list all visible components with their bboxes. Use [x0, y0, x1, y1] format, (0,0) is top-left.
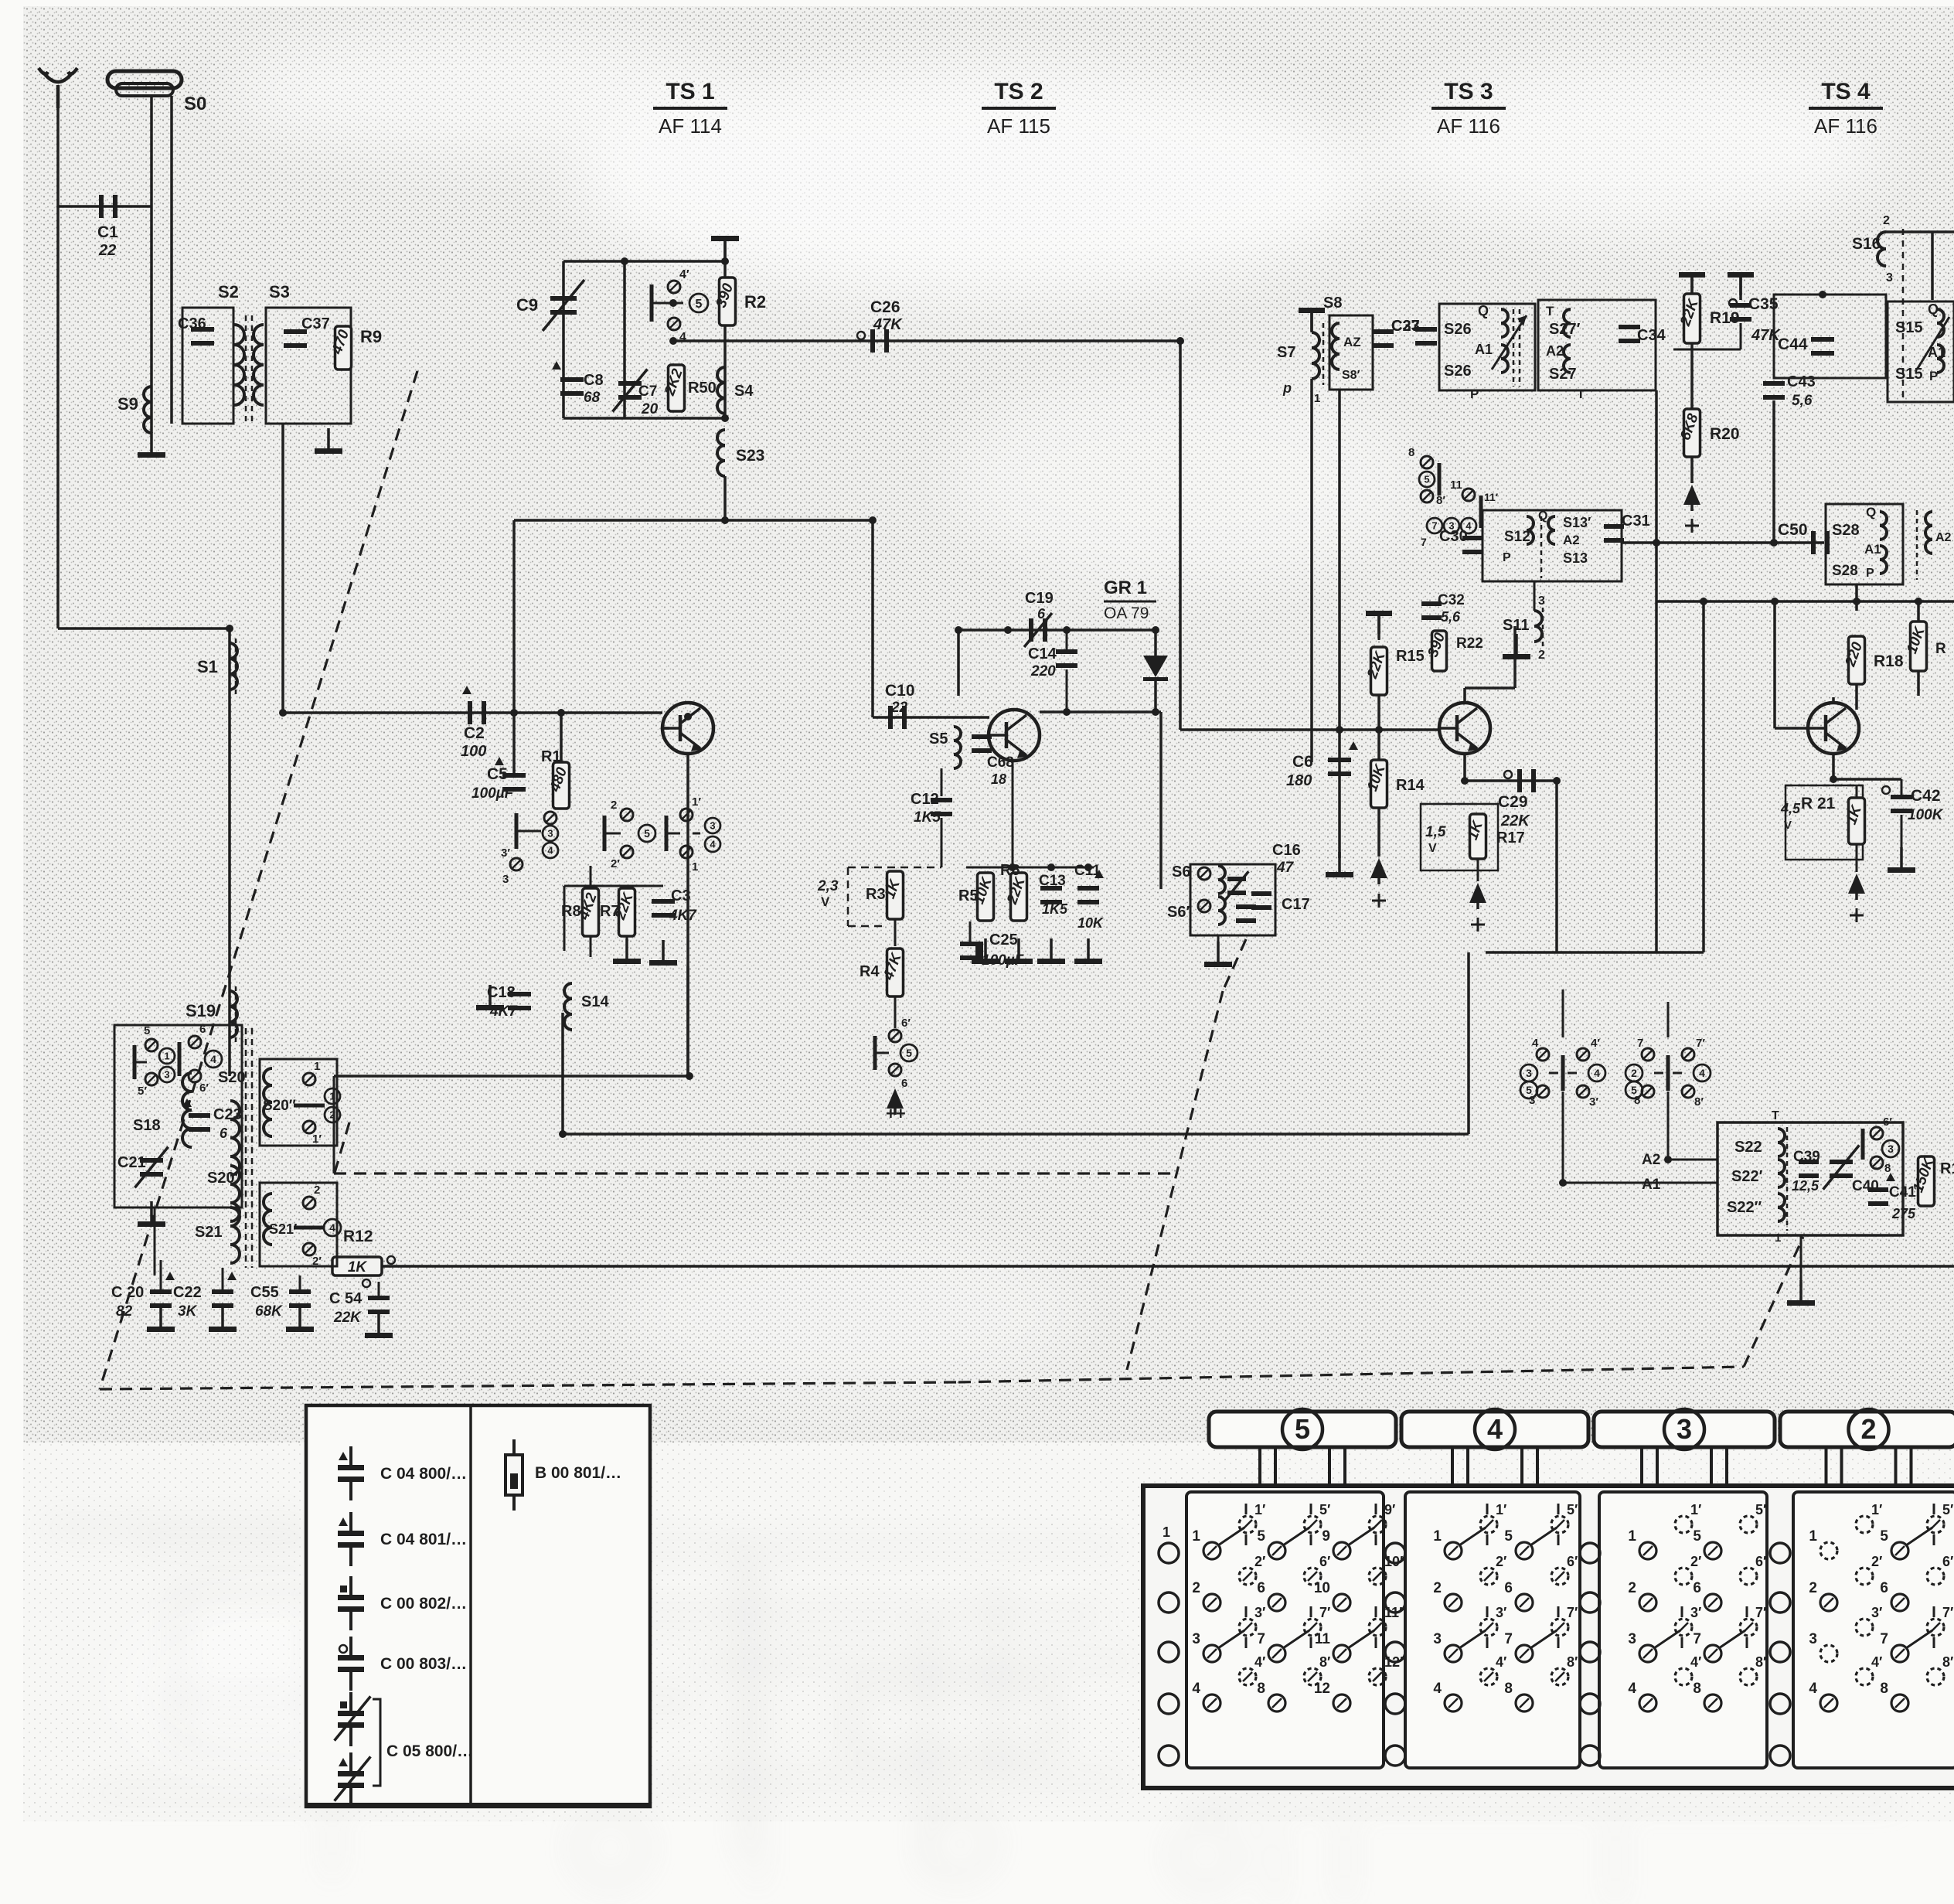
svg-text:R12: R12 [343, 1228, 373, 1245]
svg-text:1: 1 [314, 1060, 320, 1073]
svg-text:6: 6 [1257, 1580, 1265, 1596]
svg-text:R18: R18 [1874, 652, 1904, 670]
svg-text:4: 4 [1487, 1413, 1503, 1445]
svg-text:A2: A2 [1642, 1152, 1660, 1168]
svg-text:3′: 3′ [1690, 1605, 1701, 1620]
svg-text:1: 1 [1809, 1528, 1817, 1545]
svg-text:8′: 8′ [1694, 1095, 1704, 1109]
svg-text:C 00 802/…: C 00 802/… [380, 1595, 467, 1613]
svg-text:T: T [1546, 304, 1554, 318]
svg-text:5′: 5′ [138, 1085, 147, 1098]
svg-text:2: 2 [1628, 1580, 1636, 1596]
svg-text:6: 6 [199, 1023, 206, 1036]
svg-text:7′: 7′ [1755, 1605, 1766, 1620]
svg-text:3: 3 [1433, 1631, 1442, 1647]
svg-text:1′: 1′ [1690, 1502, 1701, 1517]
svg-text:4′: 4′ [679, 268, 689, 281]
svg-text:R 21: R 21 [1801, 795, 1836, 812]
svg-text:TS 2: TS 2 [994, 79, 1043, 104]
svg-text:C31: C31 [1622, 513, 1650, 530]
svg-text:6: 6 [1504, 1580, 1513, 1596]
svg-text:R50: R50 [688, 380, 717, 397]
svg-text:A1: A1 [1864, 542, 1881, 557]
svg-text:5: 5 [1424, 474, 1429, 485]
svg-text:5′: 5′ [1942, 1502, 1953, 1517]
svg-text:R14: R14 [1396, 777, 1425, 794]
svg-text:4: 4 [547, 845, 553, 857]
svg-text:180: 180 [1286, 772, 1312, 789]
svg-text:9: 9 [1322, 1528, 1330, 1545]
svg-text:22K: 22K [333, 1310, 362, 1326]
svg-text:4′: 4′ [1254, 1654, 1265, 1670]
svg-text:C32: C32 [1438, 592, 1465, 608]
svg-text:R3: R3 [866, 886, 886, 903]
svg-text:5: 5 [1257, 1528, 1265, 1545]
svg-text:6: 6 [1880, 1580, 1888, 1596]
svg-text:7′: 7′ [1319, 1605, 1330, 1620]
svg-text:C10: C10 [885, 682, 915, 700]
svg-text:A2: A2 [1935, 531, 1952, 544]
svg-text:4: 4 [1433, 1681, 1442, 1697]
svg-text:P: P [1929, 369, 1938, 383]
svg-text:C 20: C 20 [111, 1284, 144, 1301]
svg-text:C 04 800/…: C 04 800/… [380, 1465, 467, 1483]
svg-text:S21: S21 [195, 1224, 223, 1241]
svg-text:1′: 1′ [1496, 1502, 1506, 1517]
svg-text:5: 5 [906, 1047, 912, 1059]
svg-text:Q: Q [1538, 509, 1547, 523]
svg-text:TS 4: TS 4 [1821, 79, 1871, 104]
svg-text:S6′: S6′ [1167, 904, 1190, 921]
svg-text:S27: S27 [1549, 366, 1577, 383]
svg-text:5: 5 [1526, 1084, 1532, 1096]
svg-text:1: 1 [1192, 1528, 1200, 1545]
svg-text:2′: 2′ [312, 1255, 322, 1268]
svg-text:S12: S12 [1504, 529, 1530, 545]
svg-text:5′: 5′ [1567, 1502, 1578, 1517]
svg-text:47K: 47K [873, 316, 903, 333]
svg-text:S9: S9 [117, 394, 138, 414]
svg-text:S6: S6 [1172, 863, 1190, 880]
svg-text:S14: S14 [581, 993, 609, 1010]
svg-text:1: 1 [1314, 392, 1320, 405]
svg-text:1,5: 1,5 [1425, 824, 1446, 840]
svg-text:S15: S15 [1895, 319, 1923, 336]
svg-text:C34: C34 [1637, 327, 1666, 344]
svg-text:A1: A1 [1475, 342, 1493, 357]
svg-text:1′: 1′ [1871, 1502, 1882, 1517]
svg-text:R11: R11 [1940, 1160, 1954, 1177]
svg-text:S22′: S22′ [1731, 1168, 1763, 1185]
svg-text:AZ: AZ [1343, 335, 1361, 349]
svg-text:2: 2 [314, 1184, 320, 1197]
svg-text:100µF: 100µF [471, 785, 515, 802]
svg-text:6′: 6′ [1319, 1554, 1330, 1569]
svg-text:C44: C44 [1778, 335, 1808, 353]
svg-text:68: 68 [584, 390, 601, 406]
svg-text:1: 1 [164, 1051, 169, 1062]
svg-text:S2: S2 [218, 282, 239, 301]
svg-text:4: 4 [329, 1221, 335, 1234]
svg-text:S8: S8 [1323, 295, 1342, 312]
svg-text:11: 11 [1315, 1631, 1331, 1647]
svg-text:S3: S3 [269, 282, 290, 301]
svg-text:5: 5 [696, 298, 703, 311]
svg-text:7′: 7′ [1942, 1605, 1953, 1620]
svg-text:S11: S11 [1503, 617, 1529, 634]
svg-text:5′: 5′ [1755, 1502, 1766, 1517]
svg-text:1K5: 1K5 [914, 809, 941, 826]
svg-text:4: 4 [710, 839, 716, 850]
svg-text:11′: 11′ [1484, 491, 1499, 503]
svg-text:B 00 801/…: B 00 801/… [535, 1464, 621, 1482]
svg-text:2: 2 [1631, 1067, 1637, 1079]
svg-text:S22″: S22″ [1727, 1199, 1762, 1216]
svg-text:S7: S7 [1277, 344, 1295, 361]
svg-text:R7: R7 [600, 903, 620, 920]
svg-text:S26: S26 [1444, 321, 1472, 338]
svg-text:8′: 8′ [1436, 494, 1445, 507]
svg-text:4: 4 [210, 1053, 216, 1065]
svg-text:S4: S4 [734, 383, 754, 400]
svg-text:3: 3 [502, 873, 509, 886]
svg-text:20: 20 [641, 401, 659, 417]
svg-text:C36: C36 [178, 315, 206, 332]
svg-text:C 54: C 54 [329, 1290, 363, 1307]
svg-text:C26: C26 [870, 298, 900, 316]
svg-text:C16: C16 [1272, 842, 1301, 859]
svg-text:7: 7 [1257, 1631, 1265, 1647]
svg-text:8′: 8′ [1319, 1654, 1330, 1670]
svg-text:6: 6 [220, 1126, 228, 1141]
svg-text:3: 3 [1628, 1631, 1636, 1647]
svg-text:2: 2 [1860, 1413, 1876, 1445]
svg-text:3: 3 [1888, 1143, 1894, 1155]
svg-text:C68: C68 [987, 754, 1014, 771]
svg-text:R9: R9 [360, 327, 382, 346]
svg-text:22K: 22K [1500, 812, 1530, 829]
svg-text:C29: C29 [1498, 793, 1528, 811]
svg-text:C14: C14 [1028, 645, 1057, 662]
svg-text:S18: S18 [133, 1117, 161, 1134]
svg-text:C39: C39 [1793, 1149, 1820, 1165]
svg-text:S21′: S21′ [269, 1221, 297, 1237]
svg-text:8: 8 [1884, 1162, 1891, 1175]
svg-text:2′: 2′ [1496, 1554, 1506, 1569]
svg-text:8: 8 [1504, 1681, 1513, 1697]
svg-text:AF 114: AF 114 [659, 114, 722, 138]
svg-text:2: 2 [1809, 1580, 1817, 1596]
svg-text:C6: C6 [1292, 753, 1313, 771]
svg-text:6′: 6′ [1883, 1115, 1892, 1129]
svg-text:C 04 801/…: C 04 801/… [380, 1531, 467, 1548]
svg-text:1K: 1K [348, 1259, 368, 1276]
svg-text:3: 3 [1538, 594, 1545, 608]
svg-text:5: 5 [1295, 1413, 1310, 1445]
svg-text:6′: 6′ [1567, 1554, 1578, 1569]
svg-text:R5: R5 [958, 887, 979, 904]
svg-text:3: 3 [1526, 1067, 1532, 1079]
svg-text:3: 3 [1809, 1631, 1817, 1647]
svg-text:C9: C9 [516, 295, 538, 315]
svg-text:18: 18 [991, 771, 1006, 787]
svg-text:9′: 9′ [1384, 1502, 1395, 1517]
svg-text:1: 1 [1775, 1231, 1781, 1245]
svg-text:10: 10 [1314, 1580, 1330, 1596]
svg-text:6′: 6′ [1755, 1554, 1766, 1569]
svg-text:7′: 7′ [1567, 1605, 1578, 1620]
svg-text:1: 1 [1628, 1528, 1636, 1545]
svg-text:A1: A1 [1642, 1177, 1661, 1193]
svg-text:4′: 4′ [1871, 1654, 1882, 1670]
svg-text:S8′: S8′ [1342, 369, 1360, 382]
svg-text:7: 7 [1693, 1631, 1701, 1647]
svg-text:4: 4 [1628, 1681, 1636, 1697]
svg-text:3′: 3′ [1871, 1605, 1882, 1620]
svg-text:11: 11 [1450, 479, 1462, 492]
svg-text:22: 22 [98, 242, 116, 259]
svg-text:3′: 3′ [1589, 1095, 1598, 1109]
svg-text:2′: 2′ [1871, 1554, 1882, 1569]
svg-text:Q: Q [1866, 505, 1876, 519]
svg-text:S1: S1 [197, 657, 218, 676]
svg-text:S20: S20 [218, 1069, 246, 1086]
svg-text:82: 82 [116, 1303, 133, 1320]
svg-text:4′: 4′ [1496, 1654, 1506, 1670]
svg-text:5: 5 [1631, 1084, 1637, 1096]
svg-text:R4: R4 [860, 963, 880, 980]
svg-text:7′: 7′ [1696, 1037, 1705, 1050]
svg-text:Q: Q [1928, 301, 1939, 317]
svg-text:C12: C12 [911, 791, 939, 808]
svg-text:C19: C19 [1025, 590, 1054, 607]
svg-text:4K7: 4K7 [669, 908, 697, 924]
svg-text:6′: 6′ [1942, 1554, 1953, 1569]
svg-text:3: 3 [1192, 1631, 1200, 1647]
svg-text:10′: 10′ [1384, 1554, 1403, 1569]
svg-text:47: 47 [1276, 860, 1295, 876]
svg-text:Q: Q [1478, 303, 1489, 318]
svg-text:A2: A2 [1546, 343, 1564, 359]
svg-text:5: 5 [1693, 1528, 1701, 1545]
svg-text:V: V [821, 894, 830, 909]
svg-text:4: 4 [1532, 1037, 1539, 1050]
svg-text:8: 8 [1880, 1681, 1888, 1697]
svg-text:C42: C42 [1911, 787, 1941, 805]
svg-text:2′: 2′ [611, 857, 620, 870]
svg-text:12′: 12′ [1384, 1654, 1403, 1670]
svg-text:C55: C55 [250, 1284, 279, 1301]
svg-text:C 00 803/…: C 00 803/… [380, 1655, 467, 1673]
svg-text:S16: S16 [1852, 235, 1881, 253]
svg-text:6: 6 [1037, 606, 1046, 622]
svg-text:12,5: 12,5 [1792, 1178, 1820, 1194]
svg-text:3: 3 [547, 828, 553, 840]
svg-text:2: 2 [611, 799, 617, 812]
svg-text:3: 3 [710, 820, 715, 832]
svg-text:275: 275 [1891, 1206, 1916, 1221]
svg-text:C30: C30 [1439, 528, 1468, 545]
svg-text:S28: S28 [1832, 563, 1858, 579]
svg-text:5: 5 [644, 827, 650, 840]
svg-text:7: 7 [1637, 1037, 1643, 1050]
svg-text:4: 4 [1699, 1067, 1705, 1079]
svg-text:3: 3 [164, 1069, 169, 1081]
svg-text:p: p [1282, 380, 1292, 396]
svg-text:100: 100 [461, 743, 486, 760]
svg-text:S19: S19 [186, 1001, 216, 1020]
svg-text:3′: 3′ [501, 846, 510, 860]
svg-text:GR 1: GR 1 [1104, 577, 1147, 598]
svg-text:22: 22 [890, 700, 908, 716]
svg-text:R17: R17 [1496, 829, 1525, 846]
svg-text:4′: 4′ [1690, 1654, 1701, 1670]
svg-text:3K: 3K [178, 1303, 198, 1320]
svg-text:P: P [1866, 567, 1874, 580]
svg-text:C33: C33 [1391, 318, 1420, 335]
svg-text:100K: 100K [1908, 807, 1944, 823]
svg-text:C22: C22 [173, 1284, 202, 1301]
svg-text:3: 3 [1677, 1413, 1692, 1445]
svg-text:C43: C43 [1787, 373, 1816, 390]
svg-text:4,5: 4,5 [1780, 801, 1801, 816]
svg-text:T: T [1772, 1109, 1779, 1122]
svg-text:2: 2 [1192, 1580, 1200, 1596]
svg-text:4′: 4′ [1591, 1037, 1600, 1050]
svg-text:C25: C25 [989, 932, 1018, 949]
svg-text:C5: C5 [487, 765, 508, 783]
svg-text:S28: S28 [1832, 522, 1860, 539]
svg-text:C37: C37 [301, 315, 330, 332]
svg-text:47K: 47K [1751, 327, 1781, 344]
svg-text:5: 5 [1504, 1528, 1513, 1545]
svg-text:2,3: 2,3 [817, 878, 839, 894]
svg-text:1: 1 [692, 860, 698, 874]
svg-text:S23: S23 [736, 447, 764, 465]
svg-text:2: 2 [1433, 1580, 1442, 1596]
svg-text:3′: 3′ [1496, 1605, 1506, 1620]
svg-text:R22: R22 [1456, 635, 1483, 652]
svg-text:V: V [1428, 842, 1437, 855]
svg-text:6: 6 [1693, 1580, 1701, 1596]
svg-text:C3: C3 [671, 887, 691, 904]
svg-text:C50: C50 [1778, 521, 1808, 539]
svg-text:2′: 2′ [1690, 1554, 1701, 1569]
svg-text:8: 8 [1408, 446, 1414, 459]
svg-text:S0: S0 [184, 94, 206, 114]
svg-text:11′: 11′ [1384, 1605, 1402, 1620]
svg-text:R: R [1935, 641, 1946, 657]
svg-text:T: T [1577, 387, 1585, 401]
svg-text:AF 116: AF 116 [1437, 114, 1500, 138]
svg-text:C7: C7 [638, 383, 657, 400]
svg-text:AF 116: AF 116 [1814, 114, 1877, 138]
svg-text:S22: S22 [1734, 1139, 1762, 1156]
svg-text:S26: S26 [1444, 363, 1472, 380]
svg-text:5,6: 5,6 [1792, 393, 1813, 409]
svg-text:4: 4 [1192, 1681, 1200, 1697]
svg-text:TS 1: TS 1 [666, 79, 714, 104]
svg-text:10K: 10K [1077, 915, 1105, 931]
svg-text:V: V [1784, 819, 1792, 832]
svg-text:C13: C13 [1039, 873, 1066, 889]
svg-text:S13: S13 [1563, 550, 1588, 566]
svg-text:1′: 1′ [692, 795, 701, 809]
svg-text:1: 1 [1163, 1524, 1170, 1540]
svg-text:5: 5 [1880, 1528, 1888, 1545]
svg-text:12: 12 [1314, 1681, 1330, 1697]
svg-text:R1: R1 [541, 748, 561, 765]
svg-text:C2: C2 [464, 724, 485, 742]
svg-text:C1: C1 [97, 223, 118, 241]
svg-text:C17: C17 [1282, 896, 1310, 913]
svg-text:8′: 8′ [1567, 1654, 1578, 1670]
svg-text:OA 79: OA 79 [1104, 605, 1149, 622]
svg-text:1′: 1′ [1254, 1502, 1265, 1517]
svg-text:C 05 800/…: C 05 800/… [386, 1742, 473, 1760]
svg-text:5′: 5′ [1319, 1502, 1330, 1517]
svg-text:AF 115: AF 115 [987, 114, 1050, 138]
svg-text:2: 2 [1538, 649, 1545, 662]
svg-text:7: 7 [1431, 520, 1437, 532]
svg-text:5: 5 [144, 1024, 150, 1037]
svg-text:8: 8 [1257, 1681, 1265, 1697]
svg-text:8′: 8′ [1942, 1654, 1953, 1670]
svg-text:S5: S5 [929, 731, 948, 748]
svg-text:3: 3 [1886, 271, 1893, 284]
svg-text:6: 6 [901, 1077, 907, 1090]
svg-text:3′: 3′ [1254, 1605, 1265, 1620]
svg-text:1′: 1′ [312, 1133, 322, 1146]
svg-text:6′: 6′ [901, 1017, 911, 1030]
svg-text:7: 7 [1421, 536, 1427, 548]
svg-text:1: 1 [1433, 1528, 1442, 1545]
svg-text:8: 8 [1693, 1681, 1701, 1697]
svg-text:6′: 6′ [199, 1081, 209, 1095]
svg-text:8′: 8′ [1755, 1654, 1766, 1670]
svg-text:R15: R15 [1396, 648, 1425, 665]
svg-text:2: 2 [1883, 214, 1890, 227]
svg-text:++: ++ [886, 1104, 906, 1123]
svg-text:5,6: 5,6 [1441, 609, 1461, 625]
svg-text:2′: 2′ [1254, 1554, 1265, 1569]
svg-text:7: 7 [1880, 1631, 1888, 1647]
svg-text:TS 3: TS 3 [1444, 79, 1493, 104]
svg-text:4: 4 [1809, 1681, 1817, 1697]
svg-text:R20: R20 [1710, 425, 1740, 443]
svg-text:S13′: S13′ [1563, 515, 1591, 530]
svg-text:P: P [1503, 551, 1511, 564]
svg-text:1K5: 1K5 [1042, 901, 1068, 917]
svg-text:100µF: 100µF [982, 952, 1025, 969]
svg-text:R2: R2 [744, 292, 766, 312]
svg-text:C8: C8 [584, 372, 604, 389]
svg-text:4: 4 [1594, 1067, 1600, 1079]
svg-text:A2: A2 [1563, 533, 1580, 547]
svg-text:68K: 68K [255, 1303, 283, 1320]
svg-text:P: P [1470, 387, 1479, 401]
svg-text:7: 7 [1504, 1631, 1513, 1647]
svg-text:220: 220 [1030, 663, 1056, 680]
